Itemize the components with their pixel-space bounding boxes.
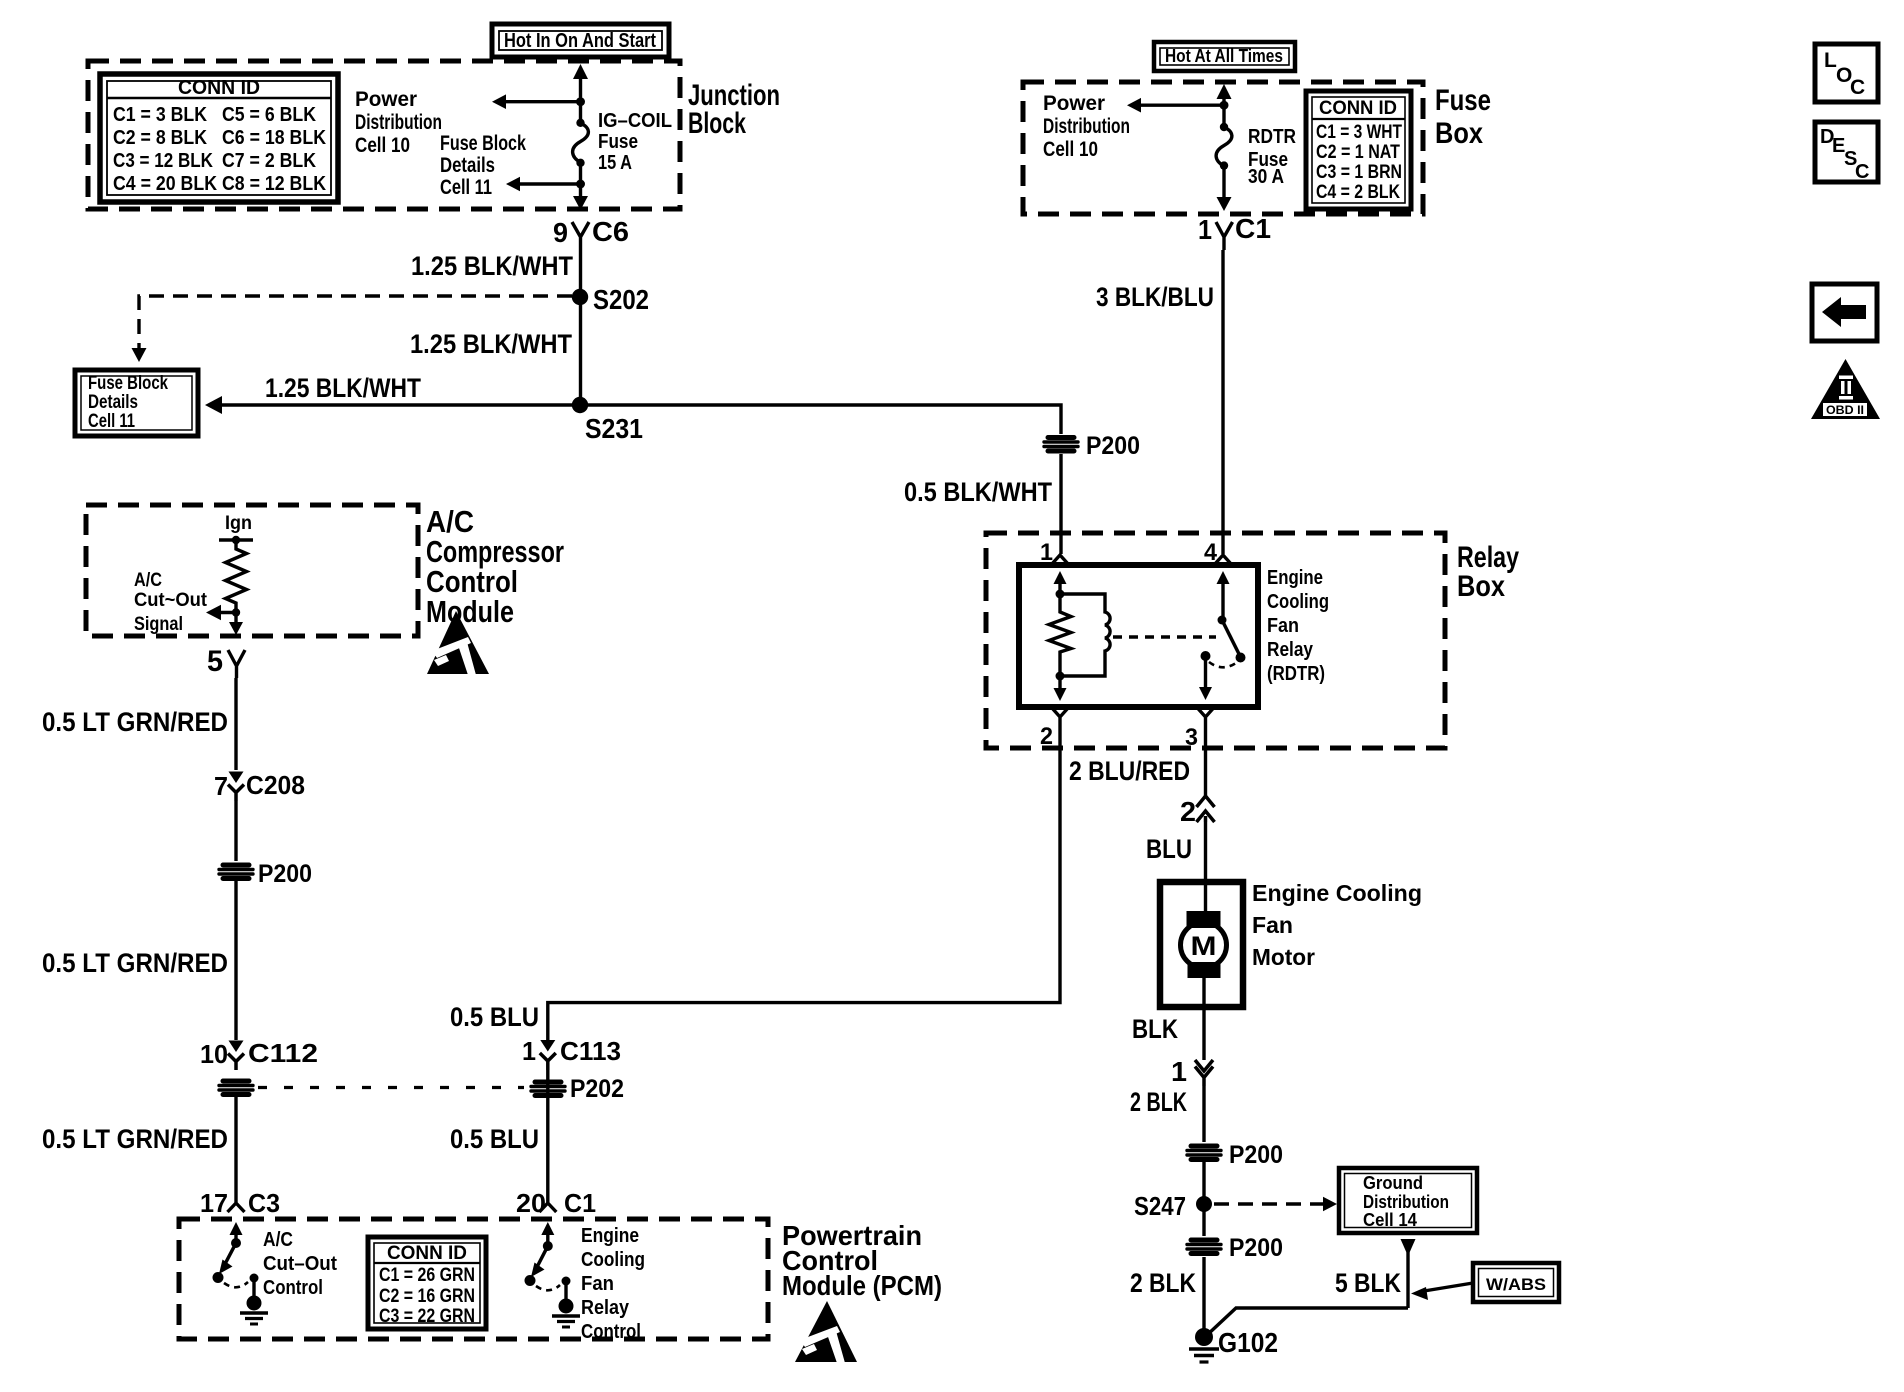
text: engine cooling fan relay (RDTR)	[1267, 567, 1329, 685]
svg-text:C7 = 2 BLK: C7 = 2 BLK	[222, 150, 316, 172]
svg-text:Cell 11: Cell 11	[88, 411, 135, 432]
svg-text:C5 = 6 BLK: C5 = 6 BLK	[222, 104, 316, 126]
svg-text:W/ABS: W/ABS	[1486, 1275, 1546, 1294]
svg-text:P200: P200	[258, 860, 312, 888]
label 1.25 BLK/WHT (S231 feed)	[265, 373, 421, 403]
relay coil resistor	[1049, 594, 1071, 681]
svg-text:P200: P200	[1086, 432, 1140, 460]
svg-text:C1 = 26 GRN: C1 = 26 GRN	[379, 1265, 475, 1286]
svg-text:30 A: 30 A	[1248, 166, 1284, 188]
wire: relay pin 2 to C113 (0.5 BLU)	[548, 727, 1060, 1040]
svg-text:1.25 BLK/WHT: 1.25 BLK/WHT	[265, 373, 421, 403]
wire: P200 to G102 (2 BLK)	[1202, 1257, 1205, 1337]
fuse IG-COIL 15A	[573, 119, 589, 184]
relay switch blade	[1222, 620, 1246, 663]
label box Hot In On And Start	[492, 24, 669, 57]
svg-text:10: 10	[200, 1039, 228, 1069]
svg-text:Fuse: Fuse	[598, 131, 638, 153]
connector C1 pin 1 (fuse box)	[1198, 213, 1271, 250]
wire: P202 to PCM pin 20	[546, 1070, 549, 1196]
text: power distribution cell 10 (fuse box)	[1043, 92, 1130, 161]
svg-text:A/C: A/C	[263, 1229, 293, 1251]
relay coil winding	[1056, 590, 1111, 677]
fuse box CONN ID table	[1306, 91, 1411, 209]
relay pin 2 connector	[1040, 708, 1068, 750]
engine cooling fan motor box	[1160, 882, 1243, 1007]
svg-text:Box: Box	[1435, 117, 1483, 150]
inline connector C113 pin 1	[522, 1036, 621, 1070]
text: IG-COIL fuse label	[598, 110, 672, 174]
wire: connector 1 to P200 (2 BLK)	[1202, 1086, 1205, 1142]
svg-text:5 BLK: 5 BLK	[1335, 1268, 1401, 1298]
svg-text:Engine Cooling: Engine Cooling	[1252, 880, 1422, 906]
svg-text:C3 = 22 GRN: C3 = 22 GRN	[379, 1306, 475, 1327]
grommet (C112 side, dashed pair with P202)	[219, 1081, 253, 1095]
svg-text:Distribution: Distribution	[355, 111, 442, 134]
wire: pin 5 to C208 (0.5 LT GRN/RED)	[234, 678, 237, 770]
svg-text:Cut–Out: Cut–Out	[263, 1253, 337, 1275]
svg-text:1.25 BLK/WHT: 1.25 BLK/WHT	[411, 251, 573, 281]
node: power distribution branch in fuse box	[1127, 98, 1229, 113]
svg-text:Fuse Block: Fuse Block	[88, 373, 168, 394]
svg-text:3: 3	[1185, 724, 1198, 751]
connector C6 pin 9	[553, 216, 629, 250]
PCM switch: A/C cut-out control	[213, 1222, 243, 1283]
relay internal: pin1 entry arrow	[1054, 571, 1067, 594]
svg-text:CONN ID: CONN ID	[1319, 98, 1397, 119]
svg-text:Hot At All Times: Hot At All Times	[1165, 46, 1283, 66]
svg-text:Signal: Signal	[134, 614, 183, 635]
svg-text:RDTR: RDTR	[1248, 126, 1296, 148]
relay pin 3 connector	[1185, 708, 1214, 751]
wire: P200 to S247	[1202, 1162, 1205, 1236]
fuse box title	[1435, 84, 1491, 150]
relay switch dashed travel arc	[1209, 662, 1236, 667]
svg-text:1: 1	[1198, 214, 1212, 245]
svg-text:Ign: Ign	[225, 513, 252, 534]
svg-text:2 BLU/RED: 2 BLU/RED	[1069, 756, 1190, 786]
svg-text:0.5 BLU: 0.5 BLU	[450, 1124, 539, 1154]
svg-text:C4 = 20 BLK: C4 = 20 BLK	[113, 173, 217, 195]
PCM switch contact and ground (A/C cut-out)	[224, 1274, 268, 1325]
junction block CONN ID table	[100, 74, 338, 202]
svg-text:2: 2	[1180, 796, 1196, 827]
inline connector C208 pin 7	[214, 770, 305, 801]
node Ign inside A/C module	[219, 513, 253, 544]
svg-text:Details: Details	[88, 392, 138, 413]
label 0.5 LT GRN/RED (2)	[42, 948, 228, 978]
svg-text:A/C: A/C	[134, 570, 162, 591]
wire: C112 to PCM pin 17	[234, 1097, 237, 1196]
inline connector pin 1 (motor ground side)	[1171, 1056, 1213, 1087]
svg-text:OBD II: OBD II	[1826, 403, 1864, 417]
motor M symbol	[1181, 911, 1227, 978]
dashed pairing line C112 grommet to P202	[258, 1086, 524, 1089]
fuse box dashed outline	[1023, 82, 1423, 214]
text: RDTR fuse label	[1248, 126, 1296, 188]
svg-text:Distribution: Distribution	[1363, 1192, 1449, 1212]
wire: relay pin 3 down to motor connector	[1204, 727, 1207, 796]
svg-text:5: 5	[207, 645, 223, 678]
grommet P202	[531, 1075, 624, 1103]
svg-text:C2 = 1 NAT: C2 = 1 NAT	[1316, 142, 1400, 163]
svg-text:Cell 11: Cell 11	[440, 176, 492, 199]
label 1.25 BLK/WHT (below S202)	[410, 329, 572, 359]
svg-text:1: 1	[522, 1036, 536, 1066]
svg-text:17: 17	[200, 1188, 228, 1218]
svg-text:Motor: Motor	[1252, 944, 1315, 970]
splice S247	[1134, 1191, 1212, 1221]
label 2 BLU/RED	[1069, 756, 1190, 786]
svg-text:P200: P200	[1229, 1141, 1283, 1169]
svg-text:BLU: BLU	[1146, 834, 1192, 864]
PCM title	[782, 1220, 942, 1301]
svg-text:Control: Control	[263, 1277, 323, 1299]
svg-text:0.5 LT GRN/RED: 0.5 LT GRN/RED	[42, 707, 228, 737]
ground G102	[1189, 1327, 1278, 1362]
svg-text:Cell 10: Cell 10	[355, 134, 410, 157]
label 2 BLK (upper)	[1130, 1087, 1187, 1117]
grommet P200 (left column)	[219, 860, 312, 888]
svg-text:Distribution: Distribution	[1043, 115, 1130, 138]
relay switch dashed actuation line from coil	[1113, 635, 1216, 638]
svg-text:Box: Box	[1457, 570, 1505, 603]
svg-text:0.5 LT GRN/RED: 0.5 LT GRN/RED	[42, 1124, 228, 1154]
margin icon DESC	[1815, 122, 1878, 183]
svg-text:C6 = 18 BLK: C6 = 18 BLK	[222, 127, 326, 149]
svg-text:1.25 BLK/WHT: 1.25 BLK/WHT	[410, 329, 572, 359]
wire: 0.5 BLU horizontal label C113 leg	[450, 1002, 539, 1032]
wire: 5 BLK run to G102	[1206, 1308, 1408, 1336]
relay RDTR solid box	[1019, 565, 1258, 707]
svg-text:Fan: Fan	[1267, 615, 1299, 637]
svg-text:S202: S202	[593, 284, 649, 315]
svg-text:Cell 14: Cell 14	[1363, 1210, 1417, 1230]
arrow W/ABS to ground wire	[1411, 1283, 1473, 1300]
svg-text:2 BLK: 2 BLK	[1130, 1087, 1187, 1117]
svg-text:C1: C1	[564, 1188, 596, 1218]
arrow: A/C cut-out signal branch	[206, 605, 240, 621]
wire: junction block exit down arrow	[573, 184, 588, 210]
text: engine cooling fan motor	[1252, 880, 1422, 970]
label 0.5 LT GRN/RED (3)	[42, 1124, 228, 1154]
svg-text:0.5 BLK/WHT: 0.5 BLK/WHT	[904, 477, 1052, 507]
wire: connector to motor (BLU)	[1204, 822, 1207, 912]
A/C compressor control module dashed outline	[86, 505, 418, 636]
dashed reference line S202 to fuse block details	[132, 296, 573, 362]
svg-text:P200: P200	[1229, 1234, 1283, 1262]
inline connector pin 2 (motor feed)	[1180, 796, 1215, 827]
margin icon back-arrow	[1812, 284, 1877, 341]
svg-text:Module: Module	[426, 594, 514, 629]
svg-text:C2 = 8 BLK: C2 = 8 BLK	[113, 127, 207, 149]
text: fuse block details cell 11 (junction block)	[440, 132, 526, 199]
svg-text:Relay: Relay	[581, 1297, 630, 1319]
svg-text:Engine: Engine	[581, 1225, 639, 1247]
svg-text:Cut~Out: Cut~Out	[134, 590, 208, 611]
svg-text:G102: G102	[1218, 1327, 1278, 1358]
svg-text:1: 1	[1040, 539, 1053, 566]
svg-text:S247: S247	[1134, 1191, 1186, 1221]
grommet P200 (upper right)	[1187, 1141, 1283, 1169]
W/ABS box	[1473, 1263, 1559, 1302]
svg-text:Block: Block	[688, 107, 746, 140]
wire: C1 to relay pin 4	[1221, 250, 1224, 554]
svg-text:C1: C1	[1235, 213, 1271, 244]
connector pin 5 (A/C module)	[207, 645, 245, 678]
text: power distribution cell 10 (junction block)	[355, 88, 442, 157]
wire: C208 to P200	[234, 801, 237, 861]
label BLU	[1146, 834, 1192, 864]
svg-text:7: 7	[214, 771, 228, 801]
svg-text:C113: C113	[560, 1036, 621, 1066]
svg-text:9: 9	[553, 217, 568, 248]
inline connector C112 pin 10	[200, 1038, 318, 1070]
svg-text:BLK: BLK	[1132, 1014, 1178, 1044]
node: fuse block details branch + arrow	[506, 177, 585, 192]
svg-text:Cell 10: Cell 10	[1043, 138, 1098, 161]
label 0.5 BLK/WHT	[904, 477, 1052, 507]
svg-text:Module (PCM): Module (PCM)	[782, 1270, 942, 1301]
text: engine cooling fan relay control	[581, 1225, 645, 1343]
ESD symbol (A/C module)	[427, 611, 489, 675]
margin icon OBD II triangle	[1811, 359, 1880, 419]
wire: C6 to S202	[579, 250, 582, 297]
connector pin 20 C1 (PCM)	[516, 1188, 596, 1218]
svg-text:C4 = 2 BLK: C4 = 2 BLK	[1316, 182, 1400, 203]
label 5 BLK	[1335, 1268, 1401, 1298]
label BLK	[1132, 1014, 1178, 1044]
wire: S231 to relay pin 1	[580, 405, 1061, 434]
svg-text:C3 = 1 BRN: C3 = 1 BRN	[1316, 162, 1402, 183]
svg-text:2: 2	[1040, 723, 1053, 750]
wire: A/C module exit with down arrow	[229, 613, 243, 636]
svg-text:(RDTR): (RDTR)	[1267, 663, 1325, 685]
svg-text:Hot In On And Start: Hot In On And Start	[504, 30, 656, 52]
PCM CONN ID table	[368, 1237, 486, 1329]
svg-text:Ground: Ground	[1363, 1173, 1423, 1193]
svg-text:Control: Control	[581, 1321, 641, 1343]
fuse RDTR 30A	[1216, 123, 1232, 211]
label 3 BLK/BLU	[1096, 282, 1214, 312]
svg-text:P202: P202	[570, 1075, 624, 1103]
svg-text:Power: Power	[355, 88, 417, 111]
svg-text:Cooling: Cooling	[581, 1249, 645, 1271]
svg-text:15 A: 15 A	[598, 152, 632, 174]
svg-text:C112: C112	[248, 1038, 318, 1068]
dashed reference line S247 to ground distribution	[1214, 1197, 1337, 1212]
text: A/C cut-out signal	[134, 570, 208, 635]
grommet P200 (lower right)	[1187, 1234, 1283, 1262]
svg-text:Fuse: Fuse	[1435, 84, 1491, 117]
text: A/C cut-out control	[263, 1229, 337, 1299]
svg-text:C8 = 12 BLK: C8 = 12 BLK	[222, 173, 326, 195]
svg-text:C1 = 3 BLK: C1 = 3 BLK	[113, 104, 207, 126]
relay box title	[1457, 541, 1519, 603]
wire: ground distribution down arrow to 5 BLK	[1401, 1239, 1416, 1308]
wire: S202 to S231	[579, 297, 582, 405]
svg-text:C1 = 3 WHT: C1 = 3 WHT	[1316, 122, 1402, 143]
svg-text:C: C	[1850, 76, 1865, 99]
PCM switch: engine cooling fan relay control	[525, 1222, 555, 1286]
label 1.25 BLK/WHT (above S202)	[411, 251, 573, 281]
svg-text:C6: C6	[592, 216, 629, 247]
label 0.5 BLU (2)	[450, 1124, 539, 1154]
splice S231 with wire and arrow to fuse block details	[205, 396, 643, 444]
label box Hot At All Times	[1154, 42, 1295, 71]
wire: feed into junction block with up arrow	[573, 64, 588, 122]
relay pin 4 connector	[1204, 539, 1232, 566]
ground distribution box	[1339, 1168, 1477, 1233]
svg-text:Relay: Relay	[1267, 639, 1314, 661]
relay box dashed outline	[986, 533, 1445, 748]
junction block dashed outline	[88, 61, 680, 209]
svg-text:IG–COIL: IG–COIL	[598, 110, 672, 132]
splice S202	[572, 284, 649, 315]
grommet P200 (relay feed)	[1044, 432, 1140, 460]
svg-text:S231: S231	[585, 413, 643, 444]
svg-text:C3 = 12 BLK: C3 = 12 BLK	[113, 150, 213, 172]
svg-text:CONN ID: CONN ID	[178, 77, 260, 99]
svg-text:CONN ID: CONN ID	[387, 1243, 467, 1264]
wire: P200 to C112	[234, 881, 237, 1040]
svg-text:3 BLK/BLU: 3 BLK/BLU	[1096, 282, 1214, 312]
svg-text:C208: C208	[246, 770, 305, 800]
resistor (A/C cut-out pull-up)	[226, 540, 247, 612]
wire: motor to connector 1 (BLK)	[1202, 978, 1205, 1060]
PCM dashed outline	[179, 1219, 768, 1339]
svg-text:0.5 LT GRN/RED: 0.5 LT GRN/RED	[42, 948, 228, 978]
svg-text:C: C	[1855, 161, 1869, 183]
relay stationary contact to pin 3	[1199, 651, 1212, 700]
node: power distribution branch in junction block	[492, 94, 585, 109]
label 2 BLK (lower)	[1130, 1268, 1196, 1298]
wire: P200 to relay pin 1	[1059, 454, 1062, 554]
junction block title	[688, 79, 780, 140]
svg-text:Engine: Engine	[1267, 567, 1323, 589]
svg-text:Power: Power	[1043, 92, 1105, 115]
svg-text:Fan: Fan	[1252, 912, 1293, 938]
ESD symbol (PCM)	[795, 1301, 857, 1363]
svg-text:2 BLK: 2 BLK	[1130, 1268, 1196, 1298]
svg-text:1: 1	[1171, 1056, 1187, 1087]
relay internal: pin4 line to pivot	[1217, 571, 1230, 625]
svg-text:Fuse Block: Fuse Block	[440, 132, 526, 155]
svg-text:Details: Details	[440, 154, 495, 177]
svg-text:C2 = 16 GRN: C2 = 16 GRN	[379, 1286, 475, 1307]
wire: feed into fuse box with up arrow	[1217, 84, 1232, 127]
svg-text:Fan: Fan	[581, 1273, 614, 1295]
svg-text:Cooling: Cooling	[1267, 591, 1329, 613]
svg-text:C3: C3	[248, 1188, 280, 1218]
fuse block details box	[75, 370, 198, 436]
svg-text:M: M	[1191, 931, 1217, 961]
relay pin 1 connector	[1040, 539, 1069, 566]
svg-text:20: 20	[516, 1188, 546, 1218]
svg-text:0.5 BLU: 0.5 BLU	[450, 1002, 539, 1032]
connector pin 17 C3 (PCM)	[200, 1188, 280, 1218]
PCM switch contact and ground (fan relay control)	[536, 1277, 580, 1328]
margin icon LOC	[1815, 44, 1878, 102]
label 0.5 LT GRN/RED (1)	[42, 707, 228, 737]
relay internal: pin2 exit arrow	[1054, 676, 1067, 701]
A/C module title	[426, 504, 564, 629]
